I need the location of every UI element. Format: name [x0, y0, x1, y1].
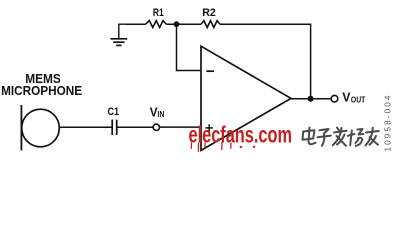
发	[333, 128, 347, 146]
svg-text:MICROPHONE: MICROPHONE	[1, 83, 82, 98]
plus sign (non-inverting input)	[205, 127, 213, 129]
svg-text:R2: R2	[202, 7, 216, 19]
terminal VIN (open circle)	[153, 124, 159, 130]
wire VIN to non-inverting input	[160, 126, 202, 128]
watermark chinese 电子发烧友	[303, 128, 379, 146]
resistor R2	[201, 21, 220, 28]
svg-text:10958-004: 10958-004	[383, 93, 392, 151]
子	[318, 129, 331, 146]
capacitor C1	[112, 120, 117, 135]
svg-text:V: V	[342, 90, 351, 104]
svg-text:C1: C1	[108, 106, 120, 118]
烧	[348, 129, 364, 146]
node output junction	[308, 96, 314, 102]
wire op-amp output to VOUT	[291, 98, 331, 100]
resistor R1	[146, 21, 167, 28]
svg-text:IN: IN	[157, 109, 164, 119]
svg-text:elecfans.com: elecfans.com	[189, 122, 293, 148]
wire R2 to output node (top right corner)	[220, 24, 311, 99]
友	[366, 128, 379, 146]
wire junction down to inverting input	[177, 24, 201, 70]
op-amp U1	[201, 46, 291, 150]
terminal VOUT (open circle)	[331, 95, 338, 102]
node junction (R1/R2/inverting input)	[174, 21, 180, 27]
watermark drip marks	[191, 142, 231, 151]
minus sign (inverting input)	[206, 70, 214, 72]
svg-text:OUT: OUT	[351, 94, 366, 104]
wire ground to R1	[126, 23, 146, 25]
ground	[111, 24, 132, 45]
wire R1 to R2	[166, 23, 201, 25]
wire C1 to VIN terminal	[117, 126, 153, 128]
svg-text:R1: R1	[153, 7, 164, 19]
MEMS microphone symbol	[21, 105, 59, 150]
电	[303, 128, 316, 145]
wire microphone to C1	[59, 126, 112, 128]
